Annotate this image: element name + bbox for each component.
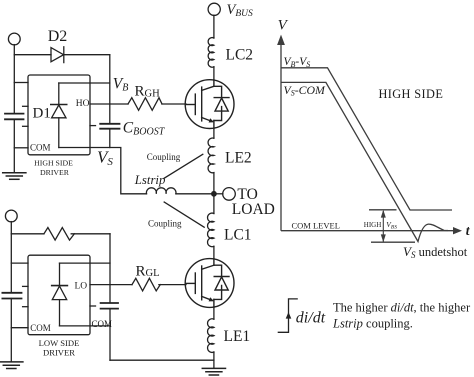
svg-text:LOAD: LOAD [232,201,275,218]
wire inner bottom COM line [60,325,111,327]
terminal VCC high side [8,33,20,45]
wire below capacitor to ground [13,119,15,172]
svg-text:LE2: LE2 [225,149,252,166]
wire COM to driver box [14,147,28,149]
wire cap bottom down [109,309,111,361]
svg-text:LC1: LC1 [224,227,252,244]
coupling pointer line lower [164,202,204,227]
wire LE1 to ground [213,352,215,368]
axis V vertical [280,42,282,231]
svg-text:Coupling: Coupling [147,152,181,162]
wire D2 cathode to VB node [64,54,110,56]
axis V arrowhead [277,35,285,45]
dimension top tick [369,209,397,211]
resistor RGH [128,98,162,111]
svg-text:D1: D1 [33,106,51,122]
curve VB-VS [281,68,452,210]
wire inner top to vertical [60,262,111,264]
svg-text:LO: LO [75,282,88,292]
wire node to TO LOAD terminal [217,193,223,195]
axis t arrowhead [453,227,462,234]
svg-text:di/dt: di/dt [296,309,326,326]
ground low-side left [0,362,23,369]
wire to center ground [110,359,214,361]
svg-text:HIGH SIDE: HIGH SIDE [379,87,444,101]
node VB vertical wire [109,55,111,124]
svg-text:COM: COM [92,319,113,329]
inductor LE2 [208,138,214,173]
dimension arrowhead down [381,234,386,242]
wire HO output [90,103,128,105]
svg-text:HIGH SIDE: HIGH SIDE [34,159,73,168]
inductor LC1 [208,213,214,247]
dimension arrow shaft [382,211,384,242]
terminal VCC low side [5,210,17,222]
capacitor Cvcc high plates [5,113,24,115]
svg-text:COM LEVEL: COM LEVEL [292,221,340,231]
wire below cap to ground low [10,299,12,362]
svg-text:The higher di/dt, the higher: The higher di/dt, the higher [333,301,471,315]
wire LC2 to Q1 collector [213,67,215,80]
wire D1 cathode to VB [59,82,110,84]
wire VCC low to resistor [11,233,44,235]
svg-text:LOW SIDE: LOW SIDE [39,338,80,348]
svg-text:DRIVER: DRIVER [40,168,70,177]
wire node down to LC1 [213,197,215,214]
svg-text:COM: COM [30,142,51,152]
graph axes and curves [277,35,462,243]
diode D-low with leads [59,263,61,286]
pin stub left lower [23,125,28,127]
inductor LE1 [208,319,214,353]
capacitor Cvcc low plates [2,292,21,294]
terminal VBUS [208,3,220,15]
wire CBOOST bottom to VS [109,129,111,148]
di/dt step symbol [278,299,298,332]
dimension bottom tick [371,241,415,243]
capacitor Ccom plates [101,302,118,304]
wire VCC vertical upper [13,45,15,114]
coupling pointer line upper [164,154,203,178]
wire LO output [90,284,132,286]
svg-text:DRIVER: DRIVER [43,347,75,357]
wire VCC low to box pin [11,262,28,264]
svg-text:HIGH: HIGH [364,221,382,229]
wire RGH to Q1 gate [162,103,186,105]
wire LC1 to Q2 collector [213,246,215,258]
wire resistor to right vertical [71,233,110,235]
svg-text:LC2: LC2 [226,46,254,63]
high side driver box [28,75,90,155]
svg-text:VB-VS: VB-VS [284,56,311,69]
capacitor CBOOST plates [100,123,119,125]
diode D1 with leads [58,83,60,105]
svg-text:COM: COM [30,323,51,333]
transistor Q1 IGBT [185,80,234,129]
svg-text:VS-COM: VS-COM [284,83,327,98]
wire LE2 to switch node [213,173,215,194]
pin stub left upper [23,105,28,107]
axis t horizontal [281,230,456,232]
svg-text:Lstrip coupling.: Lstrip coupling. [332,317,413,331]
wire RGL to Q2 gate [159,284,186,286]
transistor Q2 IGBT [185,259,234,308]
wire VCC low vertical [10,222,12,293]
svg-text:D2: D2 [48,28,68,45]
svg-text:LE1: LE1 [224,328,251,345]
svg-text:HO: HO [76,99,90,109]
ground high-side left [3,173,26,180]
svg-text:Coupling: Coupling [148,218,182,228]
wire right vertical VCC branch [109,234,111,303]
ground center [202,368,225,375]
diode D2 [51,48,64,62]
terminal TO LOAD [223,188,236,201]
wire COM low to box [11,327,28,329]
curve VS-COM with undershoot [281,82,448,241]
junction switch node [211,191,217,197]
resistor Rvcc low [44,228,75,241]
resistor RGL [132,278,160,291]
low side driver box [28,255,90,335]
pin stub low left upper [23,285,28,287]
inductor LC2 [208,38,214,68]
dimension arrowhead up [381,210,386,218]
pin stub low right [90,305,96,307]
wire VBUS down [213,15,215,38]
wire VCC to driver box top pin [14,82,28,84]
wire Q1 emitter to LE2 [213,129,215,139]
inductor Lstrip [146,188,176,194]
svg-text:Lstrip: Lstrip [134,173,166,187]
wire Lstrip to switch node [176,193,211,195]
wire Q2 emitter to LE1 [213,307,215,319]
node VS wire [59,148,147,194]
pin stub right CBOOST [90,125,96,127]
pin stub low left lower [23,306,28,308]
wire to D2 anode [14,54,51,56]
